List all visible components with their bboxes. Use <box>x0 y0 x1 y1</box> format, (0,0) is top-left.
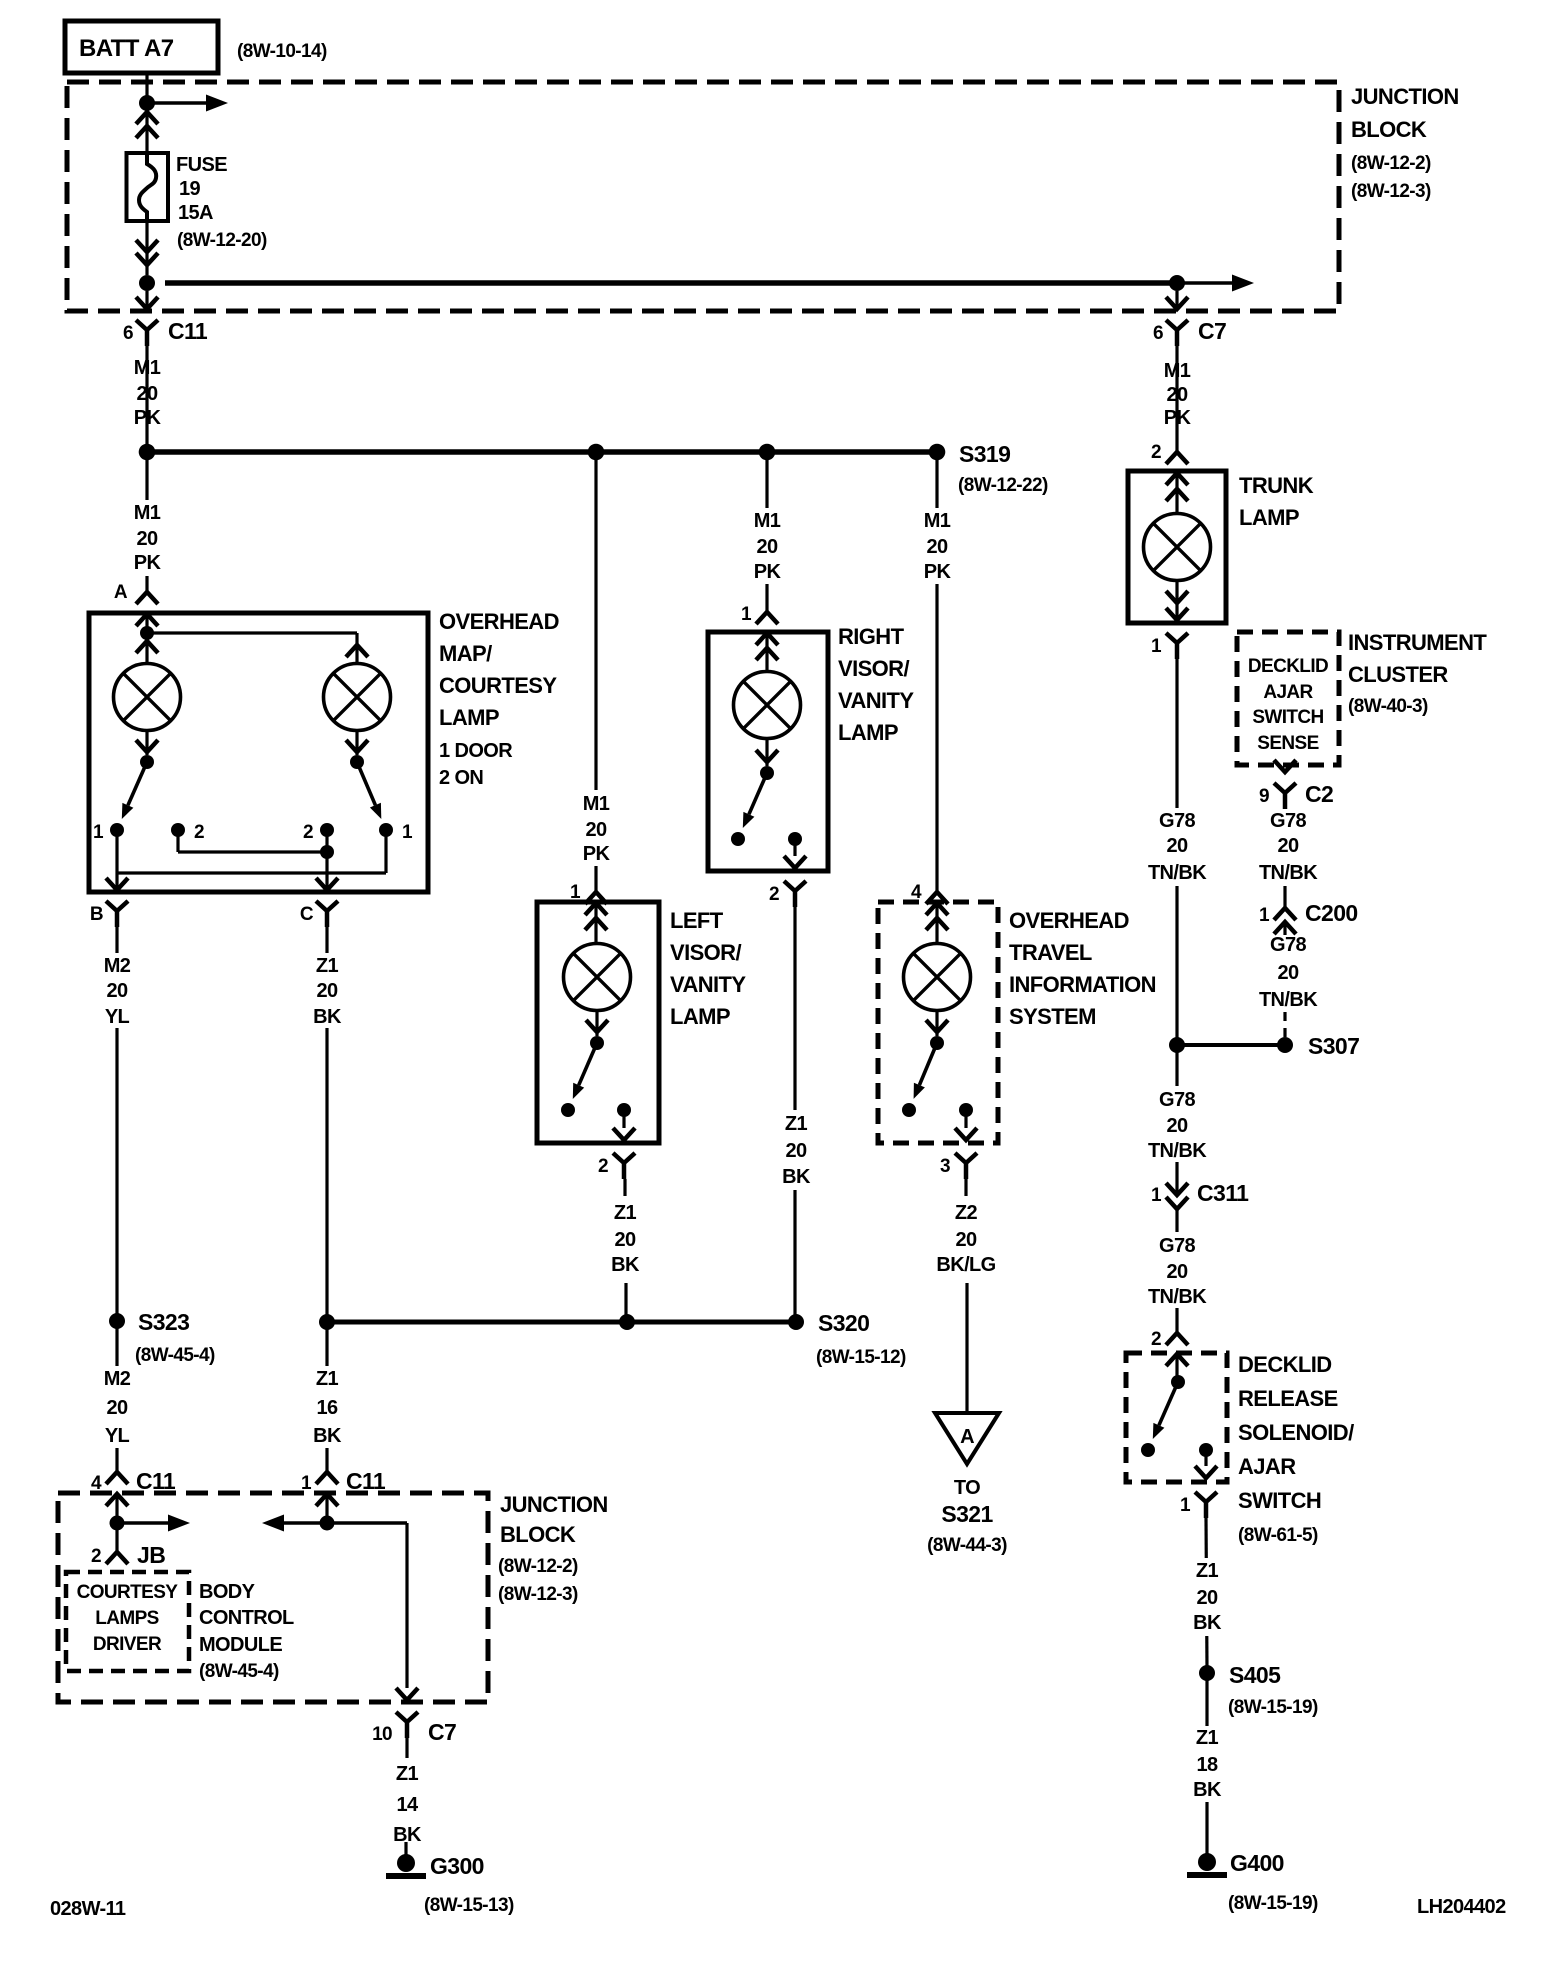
svg-text:G78: G78 <box>1159 810 1195 832</box>
wire right visor to S320 <box>793 907 796 1316</box>
connector pin A (overhead lamp) <box>114 582 158 604</box>
svg-text:2: 2 <box>303 822 313 843</box>
splice S405 <box>1199 1662 1318 1718</box>
footer 028W-11 <box>50 1898 126 1920</box>
svg-text:TN/BK: TN/BK <box>1148 862 1207 884</box>
svg-text:Z1: Z1 <box>316 955 339 977</box>
connector pin 1 (left visor) <box>570 882 607 904</box>
svg-text:Z2: Z2 <box>955 1202 978 1224</box>
connector C7 pin 6 <box>1153 291 1226 346</box>
connector C11 pin 1 <box>301 1468 386 1523</box>
svg-text:6: 6 <box>1153 323 1163 344</box>
lamp: left visor <box>564 944 631 1011</box>
svg-text:(8W-12-2): (8W-12-2) <box>498 1556 578 1577</box>
wire: M1 splice bus <box>147 449 937 455</box>
svg-text:(8W-44-3): (8W-44-3) <box>927 1535 1007 1556</box>
wire: terminals 1 tie (to B) <box>117 830 386 888</box>
connector pin 2 (trunk lamp) <box>1151 442 1188 464</box>
node below fuse <box>139 275 155 291</box>
node M1 bus at left visor branch <box>588 444 605 461</box>
svg-text:18: 18 <box>1196 1754 1218 1776</box>
power feed box BATT A7 <box>65 21 218 73</box>
label OVERHEAD MAP/COURTESY LAMP <box>439 609 559 789</box>
node Z1 at left visor branch <box>619 1314 635 1330</box>
wire label M1 20 PK (overhead feed) <box>123 500 171 576</box>
wire label G78 20 TN/BK (below C311) <box>1147 1232 1207 1308</box>
svg-text:1: 1 <box>1180 1495 1191 1516</box>
wire label Z1 20 BK (from C) <box>303 953 351 1028</box>
svg-text:YL: YL <box>105 1006 130 1028</box>
svg-text:LH204402: LH204402 <box>1417 1896 1506 1918</box>
svg-text:20: 20 <box>1277 835 1299 857</box>
wire B to S323 <box>115 927 118 1315</box>
node inside overhead lamp <box>140 626 154 640</box>
connector JB pin 2 <box>91 1523 165 1568</box>
svg-text:BLOCK: BLOCK <box>1351 117 1427 142</box>
svg-text:16: 16 <box>316 1397 338 1419</box>
label COURTESY LAMPS DRIVER <box>77 1582 179 1655</box>
wire M1 bus to left visor <box>594 452 597 892</box>
svg-text:(8W-61-5): (8W-61-5) <box>1238 1525 1318 1546</box>
right visor entry pin <box>756 633 778 671</box>
connector chevrons above fuse <box>136 112 158 153</box>
svg-text:VANITY: VANITY <box>838 688 914 713</box>
svg-text:DRIVER: DRIVER <box>93 1634 162 1655</box>
junction block (top) boundary <box>67 82 1339 311</box>
svg-text:20: 20 <box>585 819 607 841</box>
svg-text:TRAVEL: TRAVEL <box>1009 940 1092 965</box>
svg-text:SENSE: SENSE <box>1257 733 1318 754</box>
node on 2-tie <box>320 845 334 859</box>
wire label M1 20 PK (C7) <box>1153 356 1201 432</box>
svg-text:(8W-45-4): (8W-45-4) <box>135 1345 215 1366</box>
instrument cluster box <box>1237 632 1339 765</box>
svg-text:20: 20 <box>756 536 778 558</box>
svg-text:1: 1 <box>402 822 413 843</box>
splice S320 <box>788 1310 906 1368</box>
svg-text:2: 2 <box>769 884 779 905</box>
svg-text:G400: G400 <box>1230 1850 1284 1876</box>
connector C7 pin 10 <box>372 1688 456 1745</box>
wire label M2 20 YL (lower) <box>93 1366 141 1448</box>
label FUSE 19 15A (8W-12-20) <box>176 154 267 251</box>
svg-text:M1: M1 <box>583 793 610 815</box>
wire C7 to trunk lamp <box>1175 346 1178 452</box>
svg-text:SOLENOID/: SOLENOID/ <box>1238 1420 1354 1445</box>
svg-text:C200: C200 <box>1305 900 1358 926</box>
wire fuse to bus node + chevrons <box>136 221 158 275</box>
svg-text:BLOCK: BLOCK <box>500 1522 576 1547</box>
svg-text:PK: PK <box>754 561 782 583</box>
decklid release solenoid/ajar switch box <box>1126 1353 1227 1482</box>
switch (right visor) <box>743 739 778 828</box>
wire label M1 20 PK (left visor) <box>572 790 620 866</box>
wire label G78 20 TN/BK (C200) <box>1259 934 1318 1011</box>
svg-text:20: 20 <box>1166 1261 1188 1283</box>
svg-text:15A: 15A <box>178 202 213 224</box>
node Z1 at C branch <box>319 1314 335 1330</box>
feed arrow right (junction block bus) <box>147 95 228 112</box>
wire decklid to S405 <box>1206 1518 1207 1668</box>
svg-text:1: 1 <box>1151 636 1162 657</box>
svg-text:FUSE: FUSE <box>176 154 227 176</box>
node JB courtesy driver <box>110 1516 125 1531</box>
svg-text:JUNCTION: JUNCTION <box>500 1492 608 1517</box>
wire to second lamp <box>147 633 368 664</box>
overhead travel information system box <box>878 902 998 1143</box>
wire trunk lamp to S307 <box>1175 659 1178 1040</box>
svg-text:20: 20 <box>1277 962 1299 984</box>
overhead map/courtesy lamp box <box>89 613 428 892</box>
svg-text:CONTROL: CONTROL <box>199 1607 294 1629</box>
svg-text:G78: G78 <box>1159 1235 1195 1257</box>
svg-text:G78: G78 <box>1270 810 1306 832</box>
svg-text:(8W-12-22): (8W-12-22) <box>958 475 1048 496</box>
svg-text:BK: BK <box>1193 1779 1222 1801</box>
wire: S320 ground bus <box>327 1320 796 1325</box>
label OVERHEAD TRAVEL INFORMATION SYSTEM <box>1009 908 1156 1029</box>
exit pin 3 (travel info) <box>940 1110 977 1179</box>
svg-text:BK: BK <box>313 1425 342 1447</box>
trunk lamp box <box>1128 471 1226 623</box>
svg-text:20: 20 <box>106 980 128 1002</box>
svg-text:LAMP: LAMP <box>670 1004 730 1029</box>
svg-text:1: 1 <box>1151 1185 1162 1206</box>
svg-text:M1: M1 <box>134 502 161 524</box>
svg-text:(8W-12-3): (8W-12-3) <box>1351 181 1431 202</box>
svg-text:C2: C2 <box>1305 781 1333 807</box>
connector C11 pin 4 <box>91 1468 176 1523</box>
svg-text:9: 9 <box>1259 786 1269 807</box>
svg-text:(8W-45-4): (8W-45-4) <box>199 1661 279 1682</box>
trunk lamp entry pin <box>1166 473 1188 513</box>
svg-text:JUNCTION: JUNCTION <box>1351 84 1459 109</box>
svg-text:M1: M1 <box>754 510 781 532</box>
svg-text:G300: G300 <box>430 1853 484 1879</box>
terminal dots travel info <box>902 1103 973 1117</box>
svg-text:(8W-40-3): (8W-40-3) <box>1348 696 1428 717</box>
svg-text:(8W-15-19): (8W-15-19) <box>1228 1893 1318 1914</box>
svg-text:10: 10 <box>372 1724 392 1745</box>
svg-text:C7: C7 <box>1198 318 1226 344</box>
svg-text:20: 20 <box>1166 1115 1188 1137</box>
exit pin 2 (right visor) <box>769 839 806 907</box>
svg-text:2: 2 <box>1151 442 1161 463</box>
exit pin 1 (trunk lamp) <box>1151 581 1188 659</box>
label RIGHT VISOR/VANITY LAMP <box>838 624 914 745</box>
svg-text:LEFT: LEFT <box>670 908 724 933</box>
svg-text:CLUSTER: CLUSTER <box>1348 662 1448 687</box>
svg-text:LAMP: LAMP <box>1239 505 1299 530</box>
svg-text:3: 3 <box>940 1156 950 1177</box>
svg-text:INFORMATION: INFORMATION <box>1009 972 1156 997</box>
svg-text:C11: C11 <box>168 318 208 344</box>
wire label G78 20 TN/BK (below S307) <box>1147 1086 1207 1162</box>
svg-text:2: 2 <box>598 1156 608 1177</box>
connector pin 2 (decklid) <box>1151 1329 1188 1366</box>
wire C2 to C200 <box>1283 886 1286 908</box>
label BODY CONTROL MODULE <box>199 1581 294 1682</box>
terminal dots decklid <box>1141 1443 1213 1457</box>
connector C200 pin 1 <box>1259 900 1358 935</box>
svg-text:(8W-15-13): (8W-15-13) <box>424 1895 514 1916</box>
svg-text:20: 20 <box>316 980 338 1002</box>
splice S319 <box>929 441 1048 496</box>
svg-text:C311: C311 <box>1197 1180 1249 1206</box>
svg-text:(8W-12-2): (8W-12-2) <box>1351 153 1431 174</box>
wire label Z2 20 BK/LG <box>936 1202 995 1276</box>
svg-text:20: 20 <box>926 536 948 558</box>
svg-text:MODULE: MODULE <box>199 1634 282 1656</box>
label INSTRUMENT CLUSTER (8W-40-3) <box>1348 630 1487 717</box>
wire label M1 20 PK (right visor) <box>743 508 791 584</box>
lamp: courtesy left <box>114 664 181 731</box>
wire label Z1 16 BK <box>303 1366 351 1448</box>
wire S319 to travel info <box>935 452 938 892</box>
svg-text:(8W-12-3): (8W-12-3) <box>498 1584 578 1605</box>
terminal 1 right <box>379 822 413 843</box>
feed arrow right (JB internal) <box>117 1515 190 1532</box>
svg-text:(8W-15-19): (8W-15-19) <box>1228 1697 1318 1718</box>
wire label G78 20 TN/BK (C2) <box>1259 810 1318 884</box>
svg-text:COURTESY: COURTESY <box>77 1582 179 1603</box>
svg-text:Z1: Z1 <box>1196 1727 1219 1749</box>
exit pin 1 (decklid) <box>1180 1450 1217 1518</box>
splice S307 <box>1277 1033 1359 1059</box>
svg-text:Z1: Z1 <box>1196 1560 1219 1582</box>
feed arrow right near C7 <box>1177 275 1254 292</box>
svg-text:2: 2 <box>91 1546 101 1567</box>
label TRUNK LAMP <box>1239 473 1314 530</box>
svg-text:A: A <box>960 1426 974 1448</box>
courtesy lamps driver box <box>66 1572 189 1671</box>
terminal 2 left <box>171 822 204 843</box>
node M1 bus left <box>139 444 156 461</box>
lamp: right visor <box>734 672 801 739</box>
wire: terminals 2 tie (to C) <box>178 830 327 888</box>
svg-text:G78: G78 <box>1159 1089 1195 1111</box>
wire: S307 tie <box>1177 1043 1285 1047</box>
svg-text:2 ON: 2 ON <box>439 767 483 789</box>
svg-text:PK: PK <box>583 843 611 865</box>
svg-text:BK: BK <box>782 1166 811 1188</box>
svg-text:BK: BK <box>1193 1612 1222 1634</box>
svg-text:S319: S319 <box>959 441 1010 467</box>
svg-text:SWITCH: SWITCH <box>1252 707 1323 728</box>
label JUNCTION BLOCK (top) <box>1351 84 1459 202</box>
wire label Z1 20 BK (right visor out) <box>771 1110 820 1190</box>
svg-text:6: 6 <box>123 323 133 344</box>
junction block (bottom) boundary <box>58 1493 488 1702</box>
wire C11 to M1 bus <box>145 346 148 447</box>
switch (decklid ajar) <box>1153 1354 1185 1439</box>
wire C to Z1 splice bus <box>325 927 328 1316</box>
wire label Z1 14 BK <box>393 1763 422 1846</box>
wire S405 to G400 <box>1205 1673 1208 1854</box>
fuse 19 15A <box>127 153 169 221</box>
connector C311 pin 1 <box>1151 1180 1249 1222</box>
svg-text:VISOR/: VISOR/ <box>670 940 741 965</box>
wire S320 bus to C11 pin 1 <box>325 1322 328 1472</box>
wire label Z1 18 BK <box>1183 1726 1231 1802</box>
footer LH204402 <box>1417 1896 1506 1918</box>
svg-text:(8W-15-12): (8W-15-12) <box>816 1347 906 1368</box>
ground G300 <box>386 1853 514 1916</box>
label DECKLID RELEASE SOLENOID/AJAR SWITCH <box>1238 1352 1354 1546</box>
wire left visor to S320 bus <box>625 1179 626 1316</box>
node at C7 drop <box>1169 275 1185 291</box>
svg-text:B: B <box>90 904 103 925</box>
travel info entry pin <box>926 903 948 944</box>
svg-text:S323: S323 <box>138 1309 189 1335</box>
svg-text:028W-11: 028W-11 <box>50 1898 126 1920</box>
svg-text:BK: BK <box>611 1254 640 1276</box>
off-page connector A (to S321) <box>935 1413 999 1464</box>
svg-text:TO: TO <box>954 1477 980 1499</box>
left visor entry pin <box>585 903 607 944</box>
svg-text:A: A <box>114 582 128 603</box>
lamp: travel info <box>904 944 971 1011</box>
wire batt A7 to junction node <box>145 73 148 110</box>
connector C2 pin 9 <box>1259 760 1333 809</box>
wire S307 to C311 <box>1175 1045 1178 1193</box>
svg-text:OVERHEAD: OVERHEAD <box>439 609 559 634</box>
wire C200 to S307 (dashed) <box>1283 1012 1286 1040</box>
svg-text:Z1: Z1 <box>614 1202 637 1224</box>
switch left (door/on) <box>122 731 158 819</box>
svg-text:BATT A7: BATT A7 <box>79 35 174 62</box>
svg-text:PK: PK <box>134 552 162 574</box>
wire label M1 20 PK (travel) <box>913 508 961 584</box>
overhead lamp entry pin + node <box>136 614 158 664</box>
svg-text:VISOR/: VISOR/ <box>838 656 909 681</box>
svg-text:19: 19 <box>179 178 201 200</box>
svg-text:RELEASE: RELEASE <box>1238 1386 1338 1411</box>
svg-text:YL: YL <box>105 1425 130 1447</box>
lamp: trunk <box>1144 514 1211 581</box>
svg-text:M2: M2 <box>104 1368 131 1390</box>
svg-text:1: 1 <box>93 822 104 843</box>
wire C311 to decklid switch <box>1175 1222 1178 1333</box>
svg-text:TRUNK: TRUNK <box>1239 473 1314 498</box>
svg-text:S307: S307 <box>1308 1033 1359 1059</box>
svg-text:20: 20 <box>785 1140 807 1162</box>
svg-text:S320: S320 <box>818 1310 869 1336</box>
wire label M2 20 YL <box>93 953 141 1028</box>
svg-text:Z1: Z1 <box>785 1113 808 1135</box>
svg-text:20: 20 <box>614 1229 636 1251</box>
svg-text:INSTRUMENT: INSTRUMENT <box>1348 630 1487 655</box>
svg-text:LAMP: LAMP <box>439 705 499 730</box>
wire label G78 20 TN/BK (trunk) <box>1147 808 1207 886</box>
svg-text:VANITY: VANITY <box>670 972 746 997</box>
node M1 bus at right visor branch <box>759 444 776 461</box>
svg-text:C11: C11 <box>346 1468 386 1494</box>
svg-text:C7: C7 <box>428 1719 456 1745</box>
switch (left visor) <box>573 1011 608 1099</box>
terminal dots left visor <box>561 1103 631 1117</box>
label LEFT VISOR/VANITY LAMP <box>670 908 746 1029</box>
svg-text:MAP/: MAP/ <box>439 641 492 666</box>
svg-text:AJAR: AJAR <box>1238 1454 1296 1479</box>
svg-text:1: 1 <box>1259 905 1270 926</box>
svg-text:M1: M1 <box>924 510 951 532</box>
svg-text:20: 20 <box>955 1229 977 1251</box>
svg-text:DECKLID: DECKLID <box>1238 1352 1332 1377</box>
svg-text:Z1: Z1 <box>316 1368 339 1390</box>
svg-text:S321: S321 <box>941 1501 993 1527</box>
svg-text:S405: S405 <box>1229 1662 1281 1688</box>
svg-text:C: C <box>300 904 314 925</box>
svg-text:Z1: Z1 <box>396 1763 419 1785</box>
svg-text:TN/BK: TN/BK <box>1148 1286 1207 1308</box>
svg-text:AJAR: AJAR <box>1263 682 1313 703</box>
connector pin 4 (travel info) <box>911 882 948 904</box>
connector pin 1 (right visor) <box>741 604 778 625</box>
lamp: courtesy right <box>324 664 391 731</box>
svg-text:1: 1 <box>741 604 752 625</box>
wire M1 bus to right visor <box>765 452 768 612</box>
svg-text:LAMPS: LAMPS <box>95 1608 159 1629</box>
connector C11 pin 6 <box>123 291 208 346</box>
switch (travel info) <box>914 1011 948 1099</box>
svg-text:2: 2 <box>194 822 204 843</box>
svg-text:TN/BK: TN/BK <box>1148 1140 1207 1162</box>
svg-text:20: 20 <box>106 1397 128 1419</box>
label JUNCTION BLOCK (bottom) <box>498 1492 608 1605</box>
svg-text:RIGHT: RIGHT <box>838 624 905 649</box>
svg-text:SWITCH: SWITCH <box>1238 1488 1321 1513</box>
ground G400 <box>1187 1850 1318 1914</box>
wire S323 to C11 pin 4 <box>115 1321 118 1472</box>
wire label Z1 20 BK (decklid out) <box>1183 1558 1231 1636</box>
wire travel info to off-page A <box>966 1179 967 1412</box>
svg-text:M2: M2 <box>104 955 131 977</box>
svg-text:BK: BK <box>313 1006 342 1028</box>
exit pin C <box>300 878 338 927</box>
feed arrow left (JB internal at C7) <box>262 1515 327 1532</box>
svg-text:TN/BK: TN/BK <box>1259 862 1318 884</box>
svg-text:G78: G78 <box>1270 934 1306 956</box>
wire JB to C7 pin 10 <box>327 1523 407 1688</box>
wire to G300 (dashed) <box>406 1738 407 1856</box>
svg-text:LAMP: LAMP <box>838 720 898 745</box>
svg-text:2: 2 <box>1151 1329 1161 1350</box>
svg-text:(8W-10-14): (8W-10-14) <box>237 41 327 62</box>
terminal dots right visor <box>731 832 802 846</box>
exit pin 2 (left visor) <box>598 1110 635 1179</box>
svg-text:20: 20 <box>1166 835 1188 857</box>
wire: junction block internal bus <box>165 280 1177 286</box>
svg-text:COURTESY: COURTESY <box>439 673 557 698</box>
svg-text:20: 20 <box>1196 1587 1218 1609</box>
node JB at C7 drop <box>320 1516 335 1531</box>
exit pin B <box>90 878 128 927</box>
svg-text:SYSTEM: SYSTEM <box>1009 1004 1096 1029</box>
svg-text:TN/BK: TN/BK <box>1259 989 1318 1011</box>
wire label Z1 20 BK (left visor out) <box>611 1202 640 1276</box>
svg-text:JB: JB <box>137 1542 165 1568</box>
wire label M1 20 PK (below C11) <box>123 352 171 430</box>
svg-text:BK/LG: BK/LG <box>936 1254 995 1276</box>
terminal 1 left <box>93 822 124 843</box>
node S307 left <box>1169 1037 1185 1053</box>
label TO S321 (8W-44-3) <box>927 1477 1007 1556</box>
svg-text:(8W-12-20): (8W-12-20) <box>177 230 267 251</box>
label DECKLID AJAR SWITCH SENSE <box>1248 656 1328 754</box>
switch right (door/on) <box>346 731 381 819</box>
splice S323 <box>109 1309 215 1366</box>
